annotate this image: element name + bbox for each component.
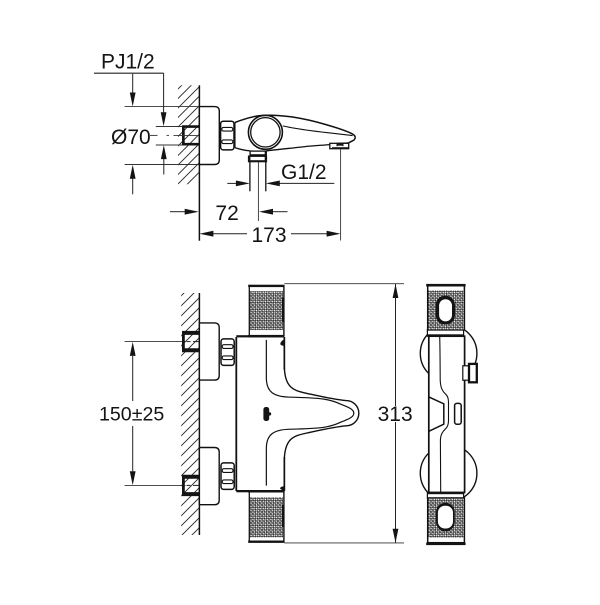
upper oval recess [439,299,452,321]
PJ1/2 leader line [94,72,164,74]
upper hex nut (front view) [221,339,234,366]
313 bottom extension line [284,542,404,544]
173 extension line at spout tip [340,149,342,241]
dimension ext line escutcheon top [125,106,200,108]
lower oval recess [438,506,453,529]
wall face line (top view) [198,85,200,240]
lower block bottom rim [426,543,465,546]
aerator [330,143,349,148]
wall hatch (top view) [172,61,206,200]
nipple centerline (dash-dot) [150,134,198,136]
lower oval recess halo [436,503,455,532]
upper handle left edge [248,285,250,336]
PJ1/2 dimension vertical + arrow down [163,73,165,114]
outlet pipe right edge [265,162,267,192]
72 arrow right at wall [170,211,186,213]
logo plate (side view) [455,403,462,424]
wall hatch (front view) [174,269,208,553]
G1/2 arrow left (right side) [279,182,334,184]
upper handle knurl [250,291,283,330]
lower handle right edge [283,491,285,543]
svg-text:313: 313 [378,403,413,426]
PJ1/2 arrow up from below [163,158,165,175]
313 top extension line [284,283,404,285]
body top edge (thick) [236,335,284,337]
upper escutcheon (front view) [199,323,219,380]
upper wall nipple (front view) [182,331,199,352]
upper handle right shadow [282,298,285,323]
thermostat cap circle inner [251,118,280,147]
dimension ext line escutcheon bottom [125,164,200,166]
lower wall nipple (front view) [182,475,199,496]
svg-text:PJ1/2: PJ1/2 [101,51,155,74]
lower handle knurl [250,497,283,537]
spout top outline [235,115,355,143]
spout inner outline (plan) [266,340,353,486]
diverter button inner [463,366,470,380]
svg-text:Ø70: Ø70 [111,126,151,149]
spout silhouette line (side view) [440,336,449,492]
body cone left cap [234,123,236,148]
shower outlet band 1 [250,151,266,156]
lower knurl block [428,498,465,543]
outlet pipe centerline [257,162,259,221]
upper knurl block [428,286,465,330]
72 arrow left at pipe center [272,211,287,213]
spout tip notch (side view) [429,397,444,431]
wall face line (front view) [198,293,200,535]
svg-text:150±25: 150±25 [99,403,164,425]
173 dimension line right segment + arrow right [291,233,328,235]
body right edge lower [283,457,285,491]
body left edge [235,337,237,491]
upper block top rim [426,284,465,287]
150±25 dim line lower + arrow down [132,426,134,471]
spout outer curve (plan) [284,368,358,458]
lower handle left edge [248,491,250,543]
lower handle right shadow [282,505,285,527]
body bottom edge (thick) [236,490,284,492]
173 dimension line left segment + arrow left [212,233,247,235]
dimension ext line nipple bottom [156,144,182,146]
escutcheon flange (top view) [199,107,219,165]
lower escutcheon circle (side view) [420,445,477,502]
dimension ext line nipple top [156,126,182,128]
threaded wall nipple (top view) [182,125,199,145]
150±25 dim line upper + arrow up [132,356,134,401]
svg-text:72: 72 [215,202,238,225]
lower handle top band [248,490,284,492]
outlet pipe left edge [249,162,251,192]
svg-text:173: 173 [252,224,287,247]
indicator mark bottom [280,486,285,491]
indicator mark top [280,339,285,346]
upper oval recess halo [436,296,455,325]
lower escutcheon (front view) [199,448,219,505]
G1/2 arrow right (left side) [227,182,236,184]
mixer body white fill (front view) [236,337,359,491]
spout underside line [266,145,329,151]
lower hex nut (front view) [221,463,234,490]
upper supply centerline ext [125,341,186,343]
diverter button outer [469,364,477,382]
lower handle bottom band [248,541,284,543]
upper handle bottom band [248,335,284,337]
spout shoulder interior line [283,126,353,136]
thermostat cap circle outer (top view) [248,115,282,149]
upper escutcheon circle (side view) [420,325,477,382]
body (side view) [429,336,465,492]
Ø70 arrow up [132,179,134,195]
upper handle top band [248,285,284,287]
313 dim line + arrows [395,284,397,406]
shower outlet band 2 [249,156,267,161]
upper collar band [427,330,463,337]
svg-text:G1/2: G1/2 [281,161,327,184]
body right edge upper [283,337,285,370]
lower supply centerline ext [125,484,186,486]
spout tip underside to aerator [337,142,349,145]
diverter knob mark (plan) [263,407,269,421]
Ø70 arrow down [132,74,134,94]
union hex nut (top view) [221,121,234,150]
lower collar band [427,492,463,498]
body cone bottom edge [235,148,250,151]
upper handle right edge [283,285,285,336]
